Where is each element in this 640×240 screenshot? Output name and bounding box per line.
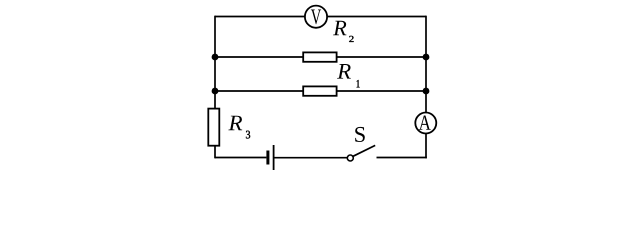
label R3 letter R <box>228 116 242 131</box>
wire: top horizontal, right of voltmeter <box>327 16 426 18</box>
wire: left rail vertical, top corner down to R3 top <box>214 16 216 109</box>
wire: left rail vertical, R3 bottom to bottom corner <box>214 146 216 159</box>
switch S pivot circle <box>347 155 353 161</box>
voltmeter letter V <box>311 10 321 25</box>
label R2 letter R <box>333 21 346 35</box>
wire: row 3 horizontal, right of resistor R1 <box>337 90 426 92</box>
battery B1: long thin plate <box>273 145 275 170</box>
wire: right rail vertical, ammeter bottom to bottom corner <box>425 134 427 159</box>
label R1 letter R <box>337 64 351 79</box>
wire: bottom horizontal, left corner to battery <box>215 157 266 159</box>
wire: row 3 horizontal, left of resistor R1 <box>215 90 303 92</box>
wire: right rail vertical, top corner down to ammeter top <box>425 16 427 113</box>
ammeter letter A <box>419 115 431 129</box>
wire: switch to bottom-right corner <box>377 157 427 159</box>
node: junction dot right rail row 3 <box>423 88 430 95</box>
node: junction dot left rail row 3 <box>212 88 219 95</box>
wire: top horizontal, left of voltmeter <box>215 16 305 18</box>
wire: battery to switch pivot <box>275 157 348 159</box>
node: junction dot right rail row 2 <box>423 54 430 61</box>
wire: row 2 horizontal, right of resistor R2 <box>337 56 426 58</box>
label R1 subscript 1 <box>357 80 360 87</box>
switch S lever arm <box>353 145 375 156</box>
resistor R1 body <box>303 86 336 95</box>
label R3 subscript 3 <box>246 131 250 139</box>
voltmeter V1 circle <box>305 6 327 28</box>
battery B1: short thick plate <box>266 151 269 165</box>
resistor R3 body (vertical) <box>208 109 219 146</box>
resistor R2 body <box>303 52 336 61</box>
label R2 subscript 2 <box>349 36 353 42</box>
ammeter A1 circle <box>415 113 436 134</box>
label S (switch) <box>355 127 365 142</box>
node: junction dot left rail row 2 <box>212 54 219 61</box>
wire: row 2 horizontal, left of resistor R2 <box>215 56 303 58</box>
